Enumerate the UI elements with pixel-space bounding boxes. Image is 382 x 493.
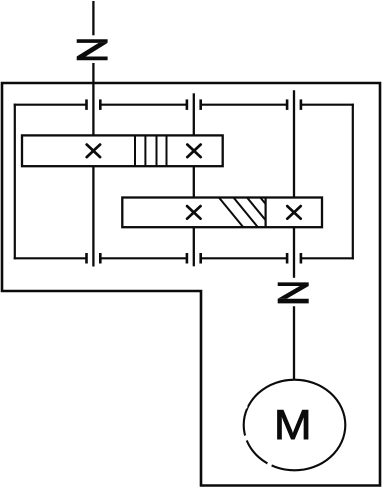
inner top wall segment d	[301, 104, 354, 106]
bearing tick shaft III top left	[286, 99, 289, 110]
coupling Z1 on input shaft	[77, 39, 108, 60]
gear block G2 divider	[265, 198, 267, 228]
motor circle gap 2	[243, 435, 248, 440]
bearing tick shaft II bottom left	[186, 253, 189, 264]
motor circle gap 3	[267, 462, 272, 467]
inner top wall segment c	[201, 104, 287, 106]
shaft III upper segment	[293, 90, 295, 197]
bearing tick shaft III bottom left	[286, 253, 289, 264]
fixed joint mark X shaft III gear	[287, 206, 300, 219]
fixed joint mark X shaft I gear	[87, 145, 100, 158]
shaft II lower segment	[193, 227, 195, 266]
shaft I upper segment above coupling	[92, 1, 94, 35]
gear block G1 spline line 1	[134, 135, 136, 166]
gear block G1 spline line 2	[144, 135, 146, 166]
bearing tick shaft II bottom right	[199, 253, 202, 264]
fixed joint mark X shaft II gear upper	[187, 145, 200, 158]
bearing tick shaft I top right	[99, 99, 102, 110]
bearing tick shaft I top left	[85, 99, 88, 110]
bearing tick shaft I bottom right	[99, 253, 102, 264]
bearing tick shaft III bottom right	[300, 253, 303, 264]
gear block G1 spline line 4	[166, 135, 168, 166]
svg-text:M: M	[274, 402, 312, 449]
motor M circle	[244, 380, 346, 471]
bearing tick shaft I bottom left	[85, 253, 88, 264]
bearing tick shaft II top right	[199, 99, 202, 110]
shaft II upper segment	[193, 93, 195, 135]
inner bottom wall segment a	[14, 257, 87, 259]
gear block G1 spline line 3	[156, 135, 158, 166]
gear block G2 on shafts II-III	[122, 198, 322, 228]
inner bearing wall left	[14, 104, 16, 260]
shaft I segment into housing	[92, 63, 94, 136]
bearing tick shaft III top right	[300, 99, 303, 110]
fixed joint mark X shaft II gear lower	[187, 206, 200, 219]
inner bottom wall segment c	[201, 257, 287, 259]
bearing tick shaft II top left	[186, 99, 189, 110]
inner bearing wall right	[352, 104, 354, 260]
inner top wall segment a	[14, 104, 87, 106]
motor shaft segment below coupling	[293, 306, 295, 380]
inner bottom wall segment b	[100, 257, 187, 259]
shaft I lower segment	[92, 166, 94, 266]
coupling Z2 on motor shaft	[278, 282, 309, 303]
inner top wall segment b	[100, 104, 187, 106]
gear block G1 on shafts I-II	[22, 135, 223, 166]
gear block G2 hatch	[219, 198, 285, 228]
shaft III segment below gear block	[293, 227, 295, 278]
motor circle gap 1	[242, 404, 247, 409]
inner bottom wall segment d	[301, 257, 354, 259]
shaft II middle segment	[193, 166, 195, 197]
